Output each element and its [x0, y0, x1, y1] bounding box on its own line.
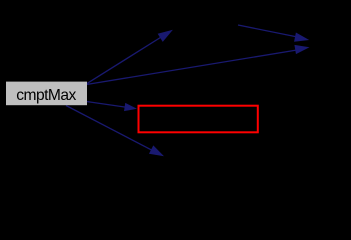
wire edge3 cmptMax to node B [87, 43, 311, 85]
wire edge5 cmptMax to node D [66, 106, 166, 161]
wire edge1 cmptMax to node A [87, 26, 176, 84]
wire edge4 cmptMax to red node C [87, 102, 138, 113]
node cmptMax [6, 82, 87, 106]
svg-text:cmptMax: cmptMax [16, 87, 76, 104]
wire edge2 node A to node B [238, 25, 310, 45]
node C truncated (red box) [139, 106, 258, 133]
